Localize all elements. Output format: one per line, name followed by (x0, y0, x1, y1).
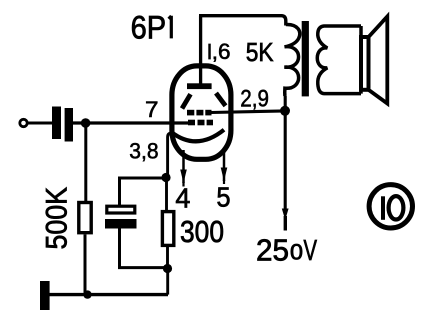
input terminal (20, 119, 27, 126)
svg-text:7: 7 (145, 97, 159, 122)
wire cathode junction to bypass capacitor (120, 178, 167, 205)
svg-text:5: 5 (216, 182, 230, 213)
wire 300 to bottom node (166, 247, 169, 269)
svg-text:500K: 500K (41, 187, 74, 250)
tube beam plate right (216, 93, 226, 106)
tube cathode (172, 130, 224, 142)
svg-text:V: V (304, 235, 318, 267)
node grid junction (81, 118, 91, 128)
tube U1 envelope (172, 66, 231, 159)
ground (40, 281, 50, 310)
resistor 300 (162, 212, 173, 246)
wire cathode lead down (168, 133, 173, 178)
tube heater pin 5 (223, 148, 226, 181)
transformer secondary winding (317, 26, 361, 94)
speaker driver (361, 37, 369, 90)
tube heater pin 4 (182, 150, 185, 183)
tube beam plate left (182, 94, 191, 108)
transformer T1 primary winding (284, 24, 299, 96)
capacitor C1 coupling plates (52, 107, 61, 140)
wire 500K to ground rail (84, 235, 87, 295)
node B+ junction (280, 106, 290, 116)
svg-text:3,8: 3,8 (129, 139, 158, 164)
svg-text:25: 25 (256, 233, 289, 268)
node cathode junction (161, 173, 170, 182)
resistor 500K (79, 203, 91, 233)
wire junction down to 500K (84, 123, 87, 202)
wire C1 to grid pin 7 (73, 121, 188, 124)
speaker cone (369, 17, 388, 104)
capacitor C2 bottom plate (105, 219, 137, 229)
svg-text:6P: 6P (131, 10, 167, 46)
wire input to C1 (28, 122, 53, 125)
wire bottom junction to rail (166, 269, 169, 295)
wire plate to transformer primary top (199, 16, 286, 26)
figure number 10 circle (369, 185, 412, 228)
tube control grid dashes pin 7 (188, 120, 213, 126)
svg-text:0: 0 (290, 240, 303, 265)
wire plate lead to top (199, 16, 202, 84)
wire screen grid to B+ node (211, 111, 285, 113)
wire cathode junction to resistor 300 (165, 178, 168, 211)
wire ground rail (47, 293, 168, 296)
250V supply arrow (282, 209, 289, 221)
svg-text:5K: 5K (246, 39, 274, 67)
wire secondary stubs to speaker (359, 26, 363, 94)
tube screen grid dashes pins 2,9 (187, 110, 212, 116)
svg-text:2,9: 2,9 (240, 85, 269, 112)
svg-text:4: 4 (175, 183, 190, 214)
svg-text:,6: ,6 (212, 39, 231, 64)
wire C2 to bottom node (120, 229, 168, 268)
wire primary bottom to B+ node (284, 96, 287, 211)
transformer core (302, 21, 309, 96)
capacitor C2 cathode bypass top plate (107, 206, 135, 213)
node rail junction (83, 290, 91, 298)
svg-text:300: 300 (180, 214, 224, 249)
tube plate anode bar (187, 83, 212, 89)
node bottom junction (163, 264, 172, 273)
